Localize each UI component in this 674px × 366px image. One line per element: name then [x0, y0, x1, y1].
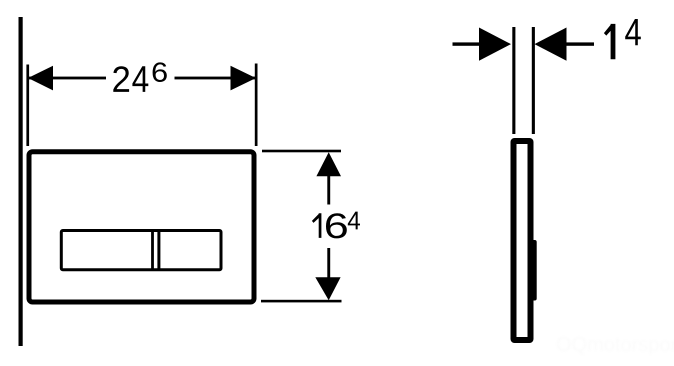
arrowhead right (1^4)	[535, 28, 567, 61]
extension line left (24^6)	[26, 65, 29, 147]
dimension line 16^4 upper segment	[327, 176, 330, 205]
label 24 digit 4	[132, 66, 148, 92]
extension line right (1^4)	[532, 27, 535, 134]
arrowhead right (24^6)	[231, 66, 256, 91]
arrowhead left (24^6)	[28, 66, 53, 91]
label superscript 6	[153, 62, 167, 82]
label 24 digit 2	[113, 66, 129, 92]
label 16 superscript 4	[348, 212, 360, 230]
label 16 digit 6	[326, 213, 347, 238]
dimension line 1^4 right lead	[567, 42, 595, 45]
watermark	[556, 334, 674, 356]
dimension line 1^4 left lead	[453, 42, 480, 45]
extension line left (1^4)	[512, 27, 515, 134]
button frame	[61, 231, 221, 270]
arrowhead up (16^4)	[316, 152, 341, 176]
wall line	[19, 17, 23, 346]
extension line bottom (16^4)	[261, 300, 342, 303]
extension line right (24^6)	[255, 64, 258, 147]
side view button bump	[531, 240, 537, 301]
label 16 digit 1 (custom glyph)	[312, 213, 322, 238]
label superscript 4 of 1^4	[625, 19, 641, 45]
extension line top (16^4)	[262, 150, 341, 153]
svg-text:OQmotorsport: OQmotorsport	[556, 334, 674, 356]
front plate outline	[29, 152, 254, 302]
dimension line 24^6 left segment	[28, 77, 106, 80]
dimension line 16^4 lower segment	[327, 248, 330, 278]
button divider line 2	[157, 231, 160, 270]
label 1 of 1^4 (custom glyph)	[604, 24, 616, 59]
arrowhead left (1^4)	[479, 28, 511, 61]
side view plate outline	[514, 141, 531, 340]
button divider line 1	[151, 231, 154, 270]
dimension line 24^6 right segment	[175, 77, 257, 80]
arrowhead down (16^4)	[315, 277, 340, 300]
